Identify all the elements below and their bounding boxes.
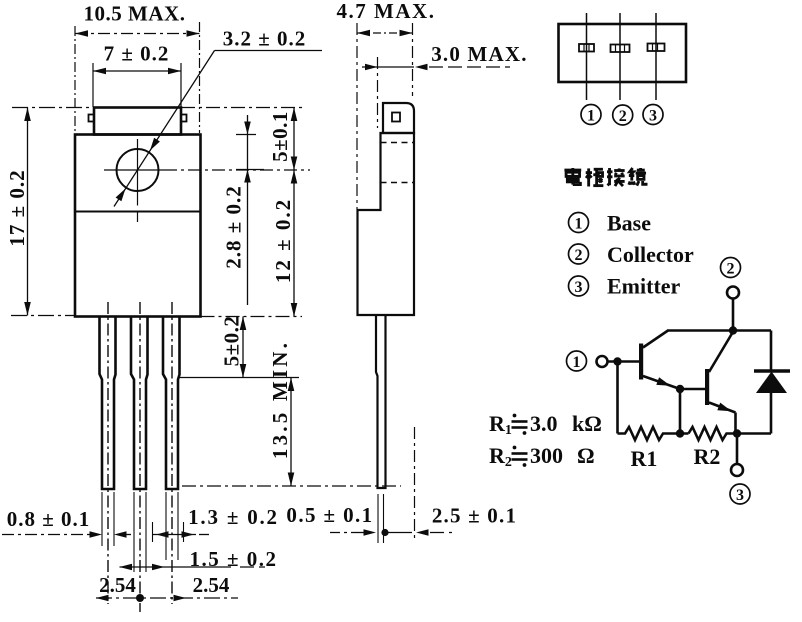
dim 1.5 dimension line xyxy=(120,566,232,568)
value R1 approx symbol xyxy=(512,422,528,428)
value R2 approx symbol xyxy=(512,454,528,460)
package body (front view) xyxy=(75,135,201,317)
dim 10.5 MAX dimension line xyxy=(75,33,200,35)
body right edge extension dash-dot xyxy=(414,427,416,540)
circled 3 under bottom view xyxy=(643,105,663,125)
svg-text:13.5 MIN.: 13.5 MIN. xyxy=(268,340,292,459)
transistor Q2 bar xyxy=(705,369,709,405)
svg-text:3: 3 xyxy=(575,279,583,296)
lead 1 centerline xyxy=(107,302,109,604)
svg-text:300: 300 xyxy=(530,443,563,468)
lead 2 xyxy=(131,317,148,489)
svg-text:1: 1 xyxy=(587,107,595,124)
svg-text:0.5 ± 0.1: 0.5 ± 0.1 xyxy=(286,503,373,527)
transistor Q1 emitter xyxy=(643,376,680,389)
svg-text:2.54: 2.54 xyxy=(99,573,136,597)
dim 10.5 MAX extension lines xyxy=(74,26,76,133)
dim 0.5 dimension line xyxy=(330,532,354,534)
svg-text:2.5 ± 0.1: 2.5 ± 0.1 xyxy=(432,504,517,528)
dim 2.54 center dot xyxy=(136,594,144,602)
dim 1.3 dimension line xyxy=(153,534,197,536)
svg-text:1: 1 xyxy=(573,354,581,371)
svg-text:10.5 MAX.: 10.5 MAX. xyxy=(84,2,186,26)
transistor Q1 bar xyxy=(639,344,643,380)
dim 2.5 dimension line xyxy=(385,532,412,534)
transistor Q1 collector xyxy=(643,331,668,348)
svg-text:Base: Base xyxy=(607,211,651,236)
diode D1 cathode bar xyxy=(754,369,790,373)
svg-text:1.3 ± 0.2: 1.3 ± 0.2 xyxy=(188,505,279,529)
pin 1 axis line xyxy=(586,13,588,100)
lead 3 xyxy=(163,317,180,489)
svg-text:Collector: Collector xyxy=(607,242,694,267)
kanji KYOKU (pole) xyxy=(586,168,604,186)
lead 2 edge extensions xyxy=(133,492,135,572)
pin 3 axis line xyxy=(655,13,657,100)
svg-text:1.5 ± 0.2: 1.5 ± 0.2 xyxy=(189,547,277,571)
lead 3 edge extensions xyxy=(165,492,167,560)
dim 5 upper extension (tab top right) xyxy=(181,107,303,109)
svg-text:7 ± 0.2: 7 ± 0.2 xyxy=(104,42,170,66)
lead 1 edge extensions xyxy=(101,492,103,546)
svg-text:3.0 MAX.: 3.0 MAX. xyxy=(431,42,528,66)
svg-text:4.7 MAX.: 4.7 MAX. xyxy=(337,0,436,23)
svg-text:R1: R1 xyxy=(631,446,658,471)
svg-text:Emitter: Emitter xyxy=(607,274,681,299)
dim 17 dimension line xyxy=(27,108,29,316)
lead 1 xyxy=(100,317,116,489)
wire to terminal 3 xyxy=(736,434,739,465)
dim 13.5 dimension line xyxy=(290,378,292,487)
dim 2.54 dimension line xyxy=(96,597,238,599)
svg-text:3.0: 3.0 xyxy=(530,411,558,436)
svg-text:0.8 ± 0.1: 0.8 ± 0.1 xyxy=(7,507,91,531)
wire base xyxy=(608,360,640,363)
svg-text:2: 2 xyxy=(727,260,735,277)
dim 17 extension lines xyxy=(12,107,94,109)
svg-text:3: 3 xyxy=(736,487,744,504)
node R1-R2 junction xyxy=(676,429,684,437)
wire terminal 2 to top rail xyxy=(732,299,735,331)
package tab (front view) xyxy=(94,108,181,135)
circled 2 under bottom view xyxy=(613,105,633,125)
dim 3.0 MAX pin extension line xyxy=(377,57,379,128)
dim 4.7 MAX dimension line xyxy=(357,32,413,34)
tab left notch xyxy=(89,115,95,122)
svg-text:2.54: 2.54 xyxy=(193,573,230,597)
terminal 1 circle xyxy=(597,356,608,367)
pin 3 slot xyxy=(648,44,665,52)
kanji SETSU (connect) xyxy=(607,168,625,186)
terminal 3 circle xyxy=(731,464,743,476)
node base junction xyxy=(613,357,621,365)
svg-text:1: 1 xyxy=(575,215,583,232)
node Q1 emitter junction xyxy=(676,385,684,393)
svg-text:5±0.1: 5±0.1 xyxy=(268,111,292,162)
kanji ZOKU (continue) xyxy=(629,168,646,186)
dim 0.5 reference dot xyxy=(381,529,388,536)
lead bottom extension dash-dot xyxy=(182,485,401,487)
node collector junction xyxy=(729,326,737,334)
side view tab hole xyxy=(392,113,400,122)
circled 2 legend xyxy=(569,244,589,264)
resistor R1 xyxy=(618,427,689,440)
pin 1 slot xyxy=(579,44,594,52)
wire diode branch lower xyxy=(770,392,773,434)
svg-text:R2: R2 xyxy=(694,444,721,469)
dim 0.8 dimension line xyxy=(2,534,90,536)
svg-text:5±0.2: 5±0.2 xyxy=(220,316,244,367)
svg-text:kΩ: kΩ xyxy=(572,411,602,436)
pin 2 slot xyxy=(611,45,630,53)
hole vertical centerline xyxy=(137,139,139,206)
dim 3.2 leader line xyxy=(215,50,323,52)
svg-text:2: 2 xyxy=(619,108,627,125)
dim 4.7 MAX extension lines xyxy=(356,23,358,209)
wire Q2 base xyxy=(680,388,705,391)
transistor Q2 emitter xyxy=(709,403,736,413)
dim 5/12 shared dimension line xyxy=(293,108,295,317)
dim 2.8 extension lines xyxy=(236,134,256,136)
side view pin xyxy=(376,315,386,488)
body division line xyxy=(75,211,201,213)
dim 3.0 MAX dimension line xyxy=(362,66,414,68)
svg-text:3.2 ± 0.2: 3.2 ± 0.2 xyxy=(223,27,307,51)
svg-text:2.8 ± 0.2: 2.8 ± 0.2 xyxy=(222,185,246,269)
node emitter junction xyxy=(733,429,741,437)
svg-text:12 ± 0.2: 12 ± 0.2 xyxy=(271,198,295,283)
lead 3 centerline xyxy=(171,302,173,604)
svg-text:3: 3 xyxy=(649,107,657,124)
pin 2 axis line xyxy=(619,13,621,100)
mounting hole xyxy=(117,149,159,191)
wire diode branch upper xyxy=(770,331,773,372)
tab right notch xyxy=(181,115,187,122)
circled 3 legend xyxy=(569,276,589,296)
terminal 2 circle xyxy=(727,287,739,299)
dim 7 dimension line xyxy=(93,70,181,72)
bottom view package outline xyxy=(559,24,687,82)
lead 2 centerline xyxy=(139,302,141,612)
body bottom extension right xyxy=(201,316,303,318)
circled 1 under bottom view xyxy=(581,105,601,125)
hole horizontal centerline xyxy=(104,169,164,171)
diode D1 triangle xyxy=(756,372,787,394)
svg-text:2: 2 xyxy=(575,247,583,264)
terminal 3 label circle xyxy=(730,484,750,504)
dim 2.8 dimension line xyxy=(247,115,249,305)
dim 5 lead dimension line xyxy=(242,317,244,378)
terminal 1 label circle xyxy=(567,351,587,371)
side view body dashed line 2 xyxy=(381,182,415,184)
wire left rail xyxy=(616,362,619,434)
side view tab xyxy=(383,103,414,133)
dim row small extension ticks xyxy=(152,522,154,542)
kanji DEN (electric) xyxy=(564,168,581,185)
wire Q1 emitter to bottom rail xyxy=(679,389,682,434)
lead step extension line xyxy=(179,377,299,379)
svg-text:Ω: Ω xyxy=(577,443,595,468)
svg-text:17 ± 0.2: 17 ± 0.2 xyxy=(5,169,29,246)
side view pin edge extensions xyxy=(377,494,379,543)
side view body outline xyxy=(358,133,415,315)
top rail wire xyxy=(667,329,771,332)
dim 7 extension lines xyxy=(92,63,94,107)
side view body dashed line 1 xyxy=(381,142,415,144)
circled 1 legend xyxy=(569,213,589,233)
terminal 2 label circle xyxy=(721,258,741,278)
resistor R2 xyxy=(689,427,772,440)
wire Q2 emitter down xyxy=(734,413,737,434)
transistor Q2 collector xyxy=(709,331,734,372)
